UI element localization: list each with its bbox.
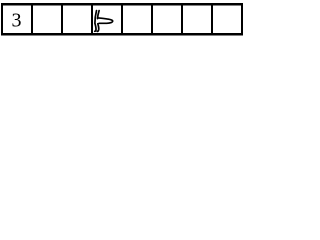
vertical line x=91 [91, 3, 93, 36]
vertical line x=61 [61, 3, 63, 36]
vertical line x=211 [211, 3, 213, 36]
pointing-hand glyph in fourth cell [95, 11, 113, 32]
svg-text:3: 3 [12, 10, 22, 32]
vertical line x=31 [31, 3, 33, 36]
background [0, 0, 243, 41]
vertical line x=151 [151, 3, 153, 36]
upper-right stroke [98, 11, 100, 19]
lower-left stroke [95, 24, 96, 31]
vertical line x=241 (right border) [241, 3, 243, 36]
lower-right stroke [97, 24, 99, 32]
upper-left stroke [95, 11, 97, 24]
vertical line x=181 [181, 3, 183, 36]
top border [1, 3, 243, 5]
bottom border [1, 33, 243, 35]
vertical line x=1 (left border) [1, 3, 3, 36]
finger loop [98, 18, 113, 23]
vertical line x=121 [121, 3, 123, 36]
